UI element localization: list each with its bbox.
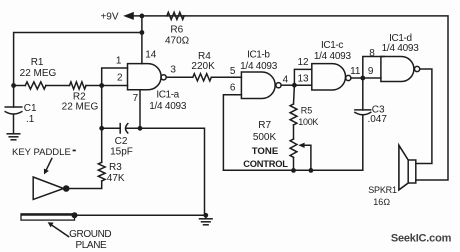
svg-text:+9V: +9V <box>100 12 118 23</box>
wire junction to IC1-d pin 9 <box>363 77 381 79</box>
wire junction up to IC1-d pin 8 <box>363 57 384 79</box>
wire junction down to R5 <box>293 85 296 104</box>
wire +9V top supply rail <box>133 16 448 180</box>
svg-text:14: 14 <box>145 50 157 61</box>
svg-text:6: 6 <box>230 83 236 94</box>
svg-text:SPKR1: SPKR1 <box>368 185 397 195</box>
svg-text:KEY PADDLE: KEY PADDLE <box>12 147 71 158</box>
svg-text:100K: 100K <box>298 117 318 127</box>
svg-text:TONE: TONE <box>252 146 279 157</box>
ground plane label arrow <box>48 222 69 236</box>
svg-text:47K: 47K <box>107 173 125 184</box>
svg-text:15pF: 15pF <box>110 147 133 158</box>
svg-text:R7: R7 <box>258 120 271 131</box>
node ground bus end junction <box>203 213 208 218</box>
svg-text:1/4 4093: 1/4 4093 <box>314 51 352 62</box>
svg-text:CONTROL: CONTROL <box>243 159 288 169</box>
wire IC1-b pin 6 to tone control net <box>223 95 241 171</box>
svg-text:R5: R5 <box>301 106 313 116</box>
wire node down to C2 row <box>101 86 103 129</box>
wire C2 right lead to ground drop <box>127 128 205 215</box>
node IC1-c output junction <box>360 76 365 81</box>
svg-text:.047: .047 <box>367 114 387 125</box>
node top-rail junction to pin 14 <box>140 14 145 19</box>
wire R1 lead <box>14 85 26 87</box>
node key paddle contact dot <box>63 185 70 192</box>
wire from +9V rail down to IC1-a pin 14 <box>141 16 143 64</box>
svg-text:PLANE: PLANE <box>76 240 108 251</box>
resistor R4 <box>193 74 212 81</box>
svg-text:9: 9 <box>368 66 374 77</box>
wire R5 to R7 <box>293 125 295 139</box>
svg-text:SeekIC.com: SeekIC.com <box>391 233 452 245</box>
svg-text:470Ω: 470Ω <box>165 35 189 46</box>
svg-text:12: 12 <box>297 57 309 68</box>
wiper arrow of R7 <box>298 143 311 171</box>
svg-text:500K: 500K <box>253 132 277 143</box>
svg-text:220K: 220K <box>191 61 215 72</box>
capacitor C3 <box>355 110 371 115</box>
capacitor C2 <box>120 124 128 133</box>
op IC1-a NAND gate <box>128 64 167 90</box>
key paddle contact triangle <box>33 177 63 199</box>
speaker SPKR1 <box>399 145 416 190</box>
svg-text:22 MEG: 22 MEG <box>62 102 99 113</box>
resistor R5 <box>290 104 297 125</box>
svg-text:C2: C2 <box>115 136 128 147</box>
wire ground bus <box>75 214 206 216</box>
svg-text:3: 3 <box>170 64 176 75</box>
wire R2 to IC1-a pin 2 <box>86 85 128 87</box>
ground at bus end <box>200 215 213 225</box>
wire IC1-c output pin 11 <box>351 77 363 79</box>
node R7 bottom junction <box>291 168 296 173</box>
wire IC1-d output to speaker <box>416 69 432 164</box>
resistor R6 <box>167 12 184 19</box>
svg-text:8: 8 <box>369 48 375 59</box>
svg-text:C1: C1 <box>24 103 37 114</box>
power +9V arrow terminal <box>123 12 134 20</box>
svg-text:16Ω: 16Ω <box>373 197 390 207</box>
op IC1-d NAND gate <box>381 57 420 82</box>
op IC1-b NAND gate <box>241 72 281 99</box>
op IC1-c NAND gate <box>312 64 351 90</box>
wire IC1-a output pin 3 to R4 <box>166 76 193 78</box>
svg-text:5: 5 <box>230 66 236 77</box>
svg-text:1: 1 <box>116 55 122 66</box>
node pins 1-2 junction <box>99 83 104 88</box>
svg-text:R1: R1 <box>31 57 44 68</box>
svg-text:1/4 4093: 1/4 4093 <box>240 61 278 72</box>
wire input bracket to pin 1 <box>102 68 128 86</box>
node ground plane terminal dot <box>72 212 78 218</box>
label KEY PADDLE asterisk <box>73 150 76 152</box>
svg-text:2: 2 <box>117 73 123 84</box>
wire junction down to C3 <box>362 78 364 110</box>
svg-text:IC1-a: IC1-a <box>156 90 179 101</box>
svg-text:1/4 4093: 1/4 4093 <box>382 43 420 54</box>
svg-text:4: 4 <box>283 75 289 86</box>
svg-text:1/4 4093: 1/4 4093 <box>149 101 187 112</box>
node R1 left junction <box>11 83 16 88</box>
node left branch junction <box>140 30 145 35</box>
svg-text:R3: R3 <box>109 162 122 173</box>
wire node down to R3 <box>101 128 103 162</box>
svg-text:7: 7 <box>133 93 139 104</box>
svg-text:IC1-c: IC1-c <box>321 40 343 51</box>
svg-text:GROUND: GROUND <box>69 229 111 240</box>
wire R3 bottom to key paddle <box>68 181 102 189</box>
svg-text:13: 13 <box>297 74 309 85</box>
resistor R1 <box>25 82 46 89</box>
ground below C1 <box>7 134 20 140</box>
svg-text:.1: .1 <box>26 114 35 125</box>
svg-text:IC1-d: IC1-d <box>389 33 411 44</box>
svg-text:11: 11 <box>350 66 361 77</box>
resistor R7 potentiometer <box>290 139 297 157</box>
wire tone control bottom net <box>223 115 362 170</box>
resistor R2 <box>70 82 87 89</box>
key paddle label arrow <box>44 159 52 175</box>
svg-text:22 MEG: 22 MEG <box>20 68 57 79</box>
node C2 right / pin 7 junction <box>138 126 143 131</box>
node wiper junction on bottom wire <box>309 168 314 173</box>
wire C2 left lead <box>102 127 121 129</box>
wire left feedback branch <box>14 33 142 108</box>
wire junction to IC1-c pins 12 13 <box>294 69 311 85</box>
svg-text:R6: R6 <box>170 25 183 36</box>
wire R7 bottom lead <box>293 157 295 170</box>
node C2 left junction <box>99 126 104 131</box>
wire between R1 and R2 <box>46 85 70 87</box>
svg-text:IC1-b: IC1-b <box>247 49 270 60</box>
wire R4 to IC1-b pin 5 <box>211 76 241 78</box>
wire IC1-a pin 7 to C2 row <box>139 90 141 129</box>
ground plane bar <box>21 214 75 220</box>
wire IC1-b output to junction <box>281 84 294 86</box>
node IC1-b output junction pin 4 <box>292 83 297 88</box>
resistor R3 <box>98 162 105 181</box>
capacitor C1 <box>5 107 22 134</box>
